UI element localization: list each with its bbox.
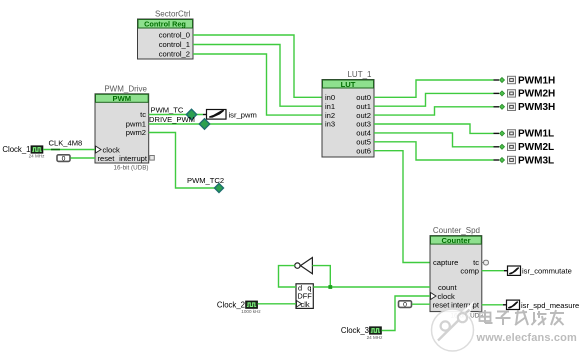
svg-text:www.elecfans.com: www.elecfans.com (476, 332, 577, 344)
svg-text:PWM_Drive: PWM_Drive (104, 85, 147, 94)
wire 0 to Counter reset (412, 303, 430, 305)
constant 0 for PWM reset (57, 155, 70, 163)
svg-text:out2: out2 (356, 111, 371, 120)
svg-text:in1: in1 (325, 102, 335, 111)
wire control_1 to LUT in1 (193, 45, 322, 107)
svg-text:PWM1H: PWM1H (518, 75, 555, 86)
wire DFF q to Counter count (313, 286, 430, 288)
wire Clock_1 to PWM clock, net CLK_4M8 (43, 139, 95, 150)
node PWM_TC2 diamond (187, 176, 224, 193)
wire control_0 to LUT in0 (193, 35, 322, 97)
svg-text:CLK_4M8: CLK_4M8 (49, 139, 83, 148)
svg-text:24 MHz: 24 MHz (367, 335, 384, 340)
LUT U_LUT_1 (322, 70, 374, 157)
inverter U_NOT (295, 258, 313, 274)
svg-text:PWM2L: PWM2L (518, 142, 554, 153)
svg-text:Counter: Counter (441, 236, 470, 245)
svg-text:out6: out6 (356, 146, 371, 155)
svg-text:Counter_Spd: Counter_Spd (433, 226, 480, 235)
svg-text:Control Reg: Control Reg (144, 20, 186, 29)
pin PWM2L (494, 142, 555, 153)
svg-text:PWM3L: PWM3L (518, 155, 554, 166)
pin PWM1L (494, 129, 555, 140)
svg-text:in3: in3 (325, 120, 335, 129)
svg-text:24 MHz: 24 MHz (29, 154, 46, 159)
svg-text:PWM3H: PWM3H (518, 102, 555, 113)
wire control_2 to LUT in2 (193, 54, 322, 115)
wire 0 to PWM reset (71, 157, 96, 159)
tc terminal square (482, 262, 484, 264)
svg-text:out4: out4 (356, 129, 371, 138)
svg-text:isr_spd_measure: isr_spd_measure (521, 301, 579, 310)
pin PWM2H (494, 89, 556, 100)
svg-text:comp: comp (460, 266, 479, 275)
wire PWM pwm2 to PWM_TC2 (149, 133, 215, 189)
svg-text:PWM1L: PWM1L (518, 129, 554, 140)
wire LUT out2 to pin PWM3H (374, 107, 494, 115)
junction on q net (328, 285, 332, 289)
svg-text:pwm2: pwm2 (126, 128, 146, 137)
clock Clock_3 (341, 326, 383, 340)
interrupt terminal square (150, 156, 155, 161)
wire LUT out4 to pin PWM2L (374, 133, 494, 147)
svg-text:clock: clock (103, 145, 121, 154)
dff U_DFF (296, 283, 313, 309)
wire Clock_3 to Counter clock (382, 296, 431, 331)
svg-text:in0: in0 (325, 93, 335, 102)
svg-text:capture: capture (433, 258, 458, 267)
svg-text:LUT: LUT (341, 80, 356, 89)
svg-text:isr_commutate: isr_commutate (522, 267, 572, 276)
svg-text:interrupt: interrupt (119, 154, 148, 163)
svg-text:reset: reset (98, 154, 116, 163)
wire LUT out0 to pin PWM1H (374, 80, 494, 97)
svg-text:out0: out0 (356, 93, 371, 102)
wire feedback q to inverter input (312, 266, 330, 287)
watermark text 电子发烧友 (481, 311, 566, 326)
clock chevron pin (96, 146, 102, 153)
svg-text:1000 kHz: 1000 kHz (241, 309, 261, 314)
wire PWM pwm1 to LUT in3, net DRIVE_PWM (149, 115, 322, 124)
svg-text:control_2: control_2 (159, 50, 190, 59)
svg-text:out1: out1 (356, 102, 371, 111)
svg-text:0: 0 (62, 156, 66, 163)
interrupt isr_pwm (203, 110, 257, 120)
svg-text:out3: out3 (356, 120, 371, 129)
clock chevron pin (431, 293, 437, 300)
svg-text:out5: out5 (356, 138, 371, 147)
wire LUT out3 to pin PWM1L (374, 124, 494, 133)
wire inverter output to DFF d (279, 266, 297, 287)
svg-text:tc: tc (140, 110, 146, 119)
pin PWM3L (494, 155, 555, 166)
svg-text:PWM2H: PWM2H (518, 89, 555, 100)
interrupt isr_commutate (482, 266, 572, 276)
interrupt isr_spd_measure (482, 300, 579, 310)
svg-text:control_0: control_0 (159, 31, 190, 40)
svg-text:reset: reset (433, 300, 451, 309)
PWM block U_PWM_Drive (95, 85, 154, 172)
counter U_Counter_Spd (430, 226, 488, 320)
watermark logo bubble (432, 301, 475, 351)
svg-text:PWM_TC: PWM_TC (151, 105, 184, 114)
svg-text:count: count (438, 283, 457, 292)
svg-text:Clock_2: Clock_2 (217, 300, 245, 309)
svg-text:interrupt: interrupt (451, 300, 480, 309)
svg-text:isr_pwm: isr_pwm (229, 111, 257, 120)
svg-text:control_1: control_1 (159, 40, 190, 49)
svg-text:DRIVE_PWM: DRIVE_PWM (149, 115, 195, 124)
clock Clock_2 (217, 300, 262, 314)
svg-text:in2: in2 (325, 111, 335, 120)
svg-text:Clock_1: Clock_1 (2, 145, 30, 154)
svg-text:clk: clk (301, 300, 310, 309)
svg-text:PWM: PWM (113, 94, 132, 103)
clock Clock_1 (2, 145, 45, 159)
svg-text:LUT_1: LUT_1 (347, 70, 372, 79)
wire LUT out1 to pin PWM2H (374, 93, 494, 106)
node PWM_TC diamond (186, 109, 196, 119)
svg-text:0: 0 (403, 302, 407, 309)
node DRIVE_PWM diamond (199, 119, 209, 129)
svg-text:16-bit (UDB): 16-bit (UDB) (114, 165, 149, 172)
pin PWM1H (494, 75, 556, 86)
wire LUT out6 to Counter capture (374, 151, 430, 263)
wire PWM tc to isr_pwm, net PWM_TC (149, 105, 203, 114)
control register U_SectorCtrl (138, 10, 194, 60)
pin PWM3H (494, 102, 556, 113)
constant 0 for Counter reset (399, 301, 412, 309)
wire LUT out5 to pin PWM3L (374, 142, 494, 160)
wire Clock_2 to DFF clk (258, 303, 296, 305)
svg-text:SectorCtrl: SectorCtrl (155, 10, 191, 19)
svg-text:Clock_3: Clock_3 (341, 326, 369, 335)
